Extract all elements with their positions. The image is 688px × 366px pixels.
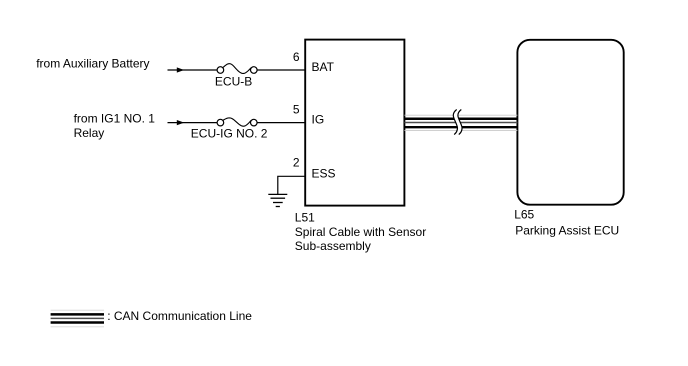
- svg-text:6: 6: [293, 50, 300, 64]
- wire break symbol: [453, 110, 462, 135]
- svg-text:Sub-assembly: Sub-assembly: [295, 239, 371, 253]
- svg-text:from IG1 NO. 1: from IG1 NO. 1: [74, 112, 156, 126]
- svg-text:5: 5: [293, 103, 300, 117]
- arrow on IG wire: [177, 120, 184, 125]
- svg-text:Parking Assist ECU: Parking Assist ECU: [515, 223, 619, 237]
- svg-text:ECU-IG NO. 2: ECU-IG NO. 2: [191, 126, 268, 140]
- wire BAT: [168, 69, 306, 71]
- svg-text:2: 2: [293, 156, 300, 170]
- svg-text:Spiral Cable with Sensor: Spiral Cable with Sensor: [295, 225, 426, 239]
- wire IG: [168, 122, 306, 124]
- svg-text:IG: IG: [312, 113, 325, 127]
- svg-text:L51: L51: [295, 210, 315, 224]
- svg-text:: CAN Communication Line: : CAN Communication Line: [107, 309, 252, 323]
- ground: [268, 194, 287, 206]
- wire ESS: [278, 176, 305, 194]
- legend CAN line sample: [51, 310, 104, 327]
- svg-text:L65: L65: [514, 208, 534, 222]
- fuse ECU-B: [217, 64, 257, 74]
- svg-text:ECU-B: ECU-B: [215, 75, 252, 89]
- svg-text:from Auxiliary Battery: from Auxiliary Battery: [36, 57, 149, 71]
- svg-text:ESS: ESS: [312, 167, 336, 181]
- svg-text:BAT: BAT: [312, 60, 335, 74]
- svg-text:Relay: Relay: [74, 126, 105, 140]
- fuse ECU-IG NO. 2: [217, 118, 257, 126]
- arrow on BAT wire: [177, 67, 184, 72]
- ECU box L65: [517, 40, 623, 205]
- connector box L51: [305, 40, 404, 206]
- CAN communication line band: [404, 115, 517, 130]
